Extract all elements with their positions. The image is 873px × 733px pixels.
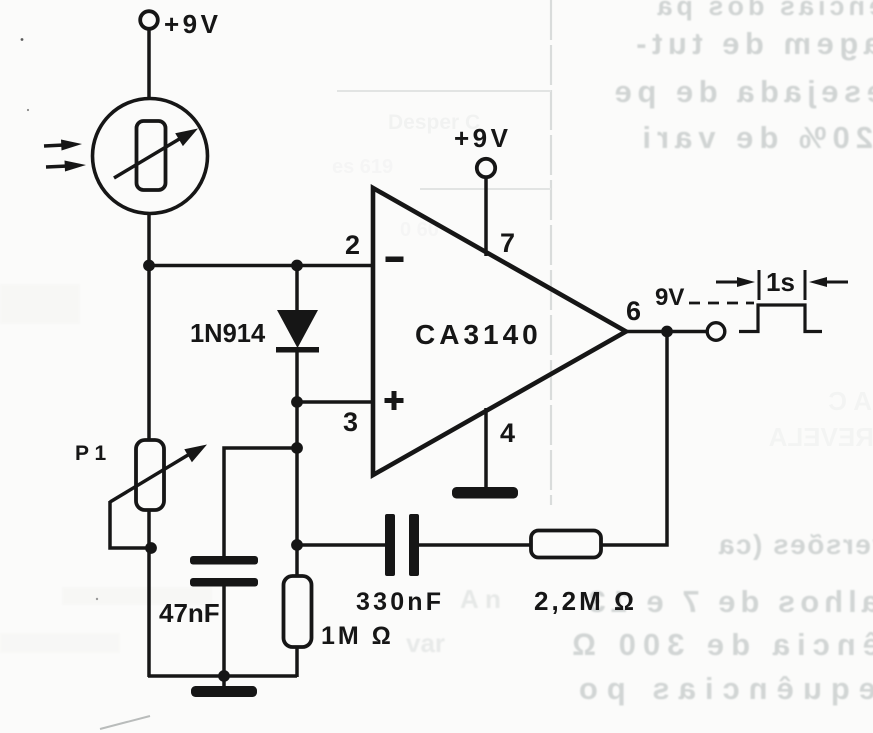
pin 2 minus sign [386, 257, 404, 263]
potentiometer P1 [110, 440, 207, 510]
svg-text:A C: A C [828, 386, 872, 416]
node C junction [291, 442, 303, 454]
wire op-amp output [624, 330, 708, 334]
node F junction output [661, 326, 673, 338]
svg-text:+9V: +9V [164, 9, 222, 39]
wire pin 7 supply [484, 177, 488, 256]
node junction diode top [291, 260, 303, 272]
wire diode anode [295, 266, 299, 313]
capacitor C2 330nF [385, 514, 419, 576]
svg-text:6: 6 [626, 296, 641, 326]
wire P1 to bottom rail [147, 509, 151, 677]
wire node D to capacitor C2 [297, 543, 386, 547]
tick mark left (1s) [758, 270, 761, 300]
wire C2 to resistor R2 [418, 543, 532, 547]
svg-text:versões (ca: versões (ca [717, 529, 873, 560]
svg-text:var: var [406, 628, 445, 658]
svg-text:+9V: +9V [454, 123, 512, 153]
svg-text:1N914: 1N914 [190, 320, 266, 348]
svg-text:REVELA: REVELA [768, 422, 873, 452]
waveform output pulse [739, 305, 822, 332]
LDR light arrow 2 [46, 161, 86, 172]
paper mottling [0, 284, 212, 653]
ghost text right middle [768, 386, 873, 452]
speck top left [21, 38, 24, 41]
node junction wiper [145, 542, 157, 554]
svg-text:agem de tut-: agem de tut- [631, 26, 873, 61]
wire P1 wiper to bottom of P1 [110, 501, 151, 548]
svg-text:1s: 1s [766, 267, 795, 297]
node +9V terminal (left) [140, 11, 158, 29]
svg-text:330nF: 330nF [356, 588, 444, 616]
svg-text:3: 3 [343, 407, 358, 437]
svg-text:ências dos pa: ências dos pa [653, 0, 873, 21]
svg-text:A n: A n [460, 584, 501, 614]
speck mid [96, 598, 98, 600]
svg-text:CA3140: CA3140 [415, 319, 542, 350]
op-amp U1 CA3140 [373, 188, 626, 475]
node output terminal [707, 323, 725, 341]
wire node D to resistor R1 [295, 545, 299, 578]
tick mark right (1s) [804, 270, 807, 300]
node junction bottom rail [218, 670, 230, 682]
ghost bleed-through text top right [609, 0, 873, 155]
wire node B down to node C [295, 402, 299, 449]
svg-text:4: 4 [500, 418, 515, 448]
wire pin 4 to ground [484, 408, 488, 489]
wire bottom rail [148, 674, 297, 678]
LDR light arrow 1 [44, 140, 82, 151]
ghost table column rule [550, 0, 552, 505]
node D junction [291, 539, 303, 551]
ghost bleed-through text bottom right [406, 529, 873, 706]
pin 3 plus sign [385, 391, 404, 410]
arrow 1s right [809, 277, 848, 287]
svg-text:equências po: equências po [570, 671, 873, 706]
LDR LDR body [93, 99, 208, 214]
capacitor C1 47nF [190, 556, 258, 587]
node +9V terminal (op-amp) [477, 159, 495, 177]
node B junction [291, 396, 303, 408]
svg-text:47nF: 47nF [159, 598, 220, 628]
wire diode cathode to node B [295, 352, 299, 403]
wire R2 to output node F [601, 332, 667, 546]
wire node A to op-amp pin 2 [149, 264, 373, 268]
wire ground stub bottom [222, 676, 226, 688]
svg-text:2: 2 [345, 230, 360, 260]
ground (pin 4) [452, 487, 518, 499]
wire node B to op-amp pin 3 [297, 400, 373, 404]
ghost pencil mark bottom left [100, 716, 150, 729]
resistor R1 1M [284, 576, 312, 647]
ghost table row rule [337, 90, 551, 92]
resistor R2 2,2M [531, 531, 601, 558]
node A junction [143, 260, 155, 272]
ground (bottom rail) [191, 686, 257, 697]
svg-text:9V: 9V [655, 284, 684, 311]
wire supply to LDR [147, 29, 151, 100]
svg-text:es 619: es 619 [332, 156, 393, 178]
svg-text:1M Ω: 1M Ω [321, 622, 394, 650]
diode D1 1N914 [276, 310, 319, 353]
wire C1 bottom to bottom rail [222, 586, 226, 676]
speck left [27, 109, 29, 111]
arrow 1s left [716, 277, 755, 287]
ghost table row rule 2 [420, 188, 551, 190]
svg-text:7: 7 [500, 228, 515, 258]
svg-text:ência de 300 Ω: ência de 300 Ω [565, 627, 873, 662]
svg-text:P 1: P 1 [75, 442, 106, 465]
wire node A down to potentiometer P1 [147, 266, 151, 443]
svg-text:20% de vari: 20% de vari [636, 120, 873, 155]
svg-text:esejada de pe: esejada de pe [609, 74, 873, 109]
ghost text fragments mid [332, 111, 480, 241]
svg-text:2,2M Ω: 2,2M Ω [534, 586, 637, 616]
wire node C to capacitor C1 top [224, 448, 297, 557]
wire LDR to node A [147, 212, 151, 266]
wire node C down to node D [295, 448, 299, 546]
wire R1 to bottom rail [295, 646, 299, 677]
wire dashed 9V level [689, 302, 754, 305]
